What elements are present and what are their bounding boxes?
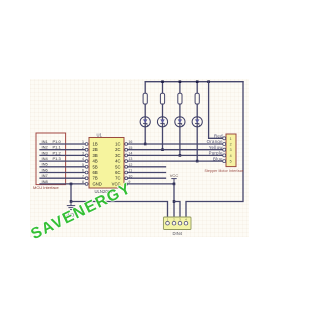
IC U1 left pin 1 (1B) [85,143,88,146]
svg-text:1B: 1B [93,142,98,147]
wire: input net IN7 to IC pin 7 [40,177,85,179]
svg-text:GND: GND [93,181,102,186]
IC U1 left pin 5 (5B) [85,165,88,168]
LED D3 [175,117,185,127]
svg-text:U1: U1 [97,133,103,138]
resistor R1 [143,93,147,104]
svg-text:Purple: Purple [209,151,224,156]
wire: input net IN8 to IC pin 8 [40,183,85,185]
svg-text:IN3: IN3 [42,150,49,155]
svg-text:IN2: IN2 [42,145,49,150]
connector J1 pin 1 [223,137,226,140]
junction on rail at column 4 [196,80,199,83]
wire: input net IN1 to IC pin 1 [40,143,85,145]
wire: input net IN4 to IC pin 4 [40,160,85,162]
LED D1 [140,117,150,127]
IC U1 left pin 3 (3B) [85,154,88,157]
svg-text:4B: 4B [93,159,98,164]
junction: LED D4 to 4C wire [196,160,199,163]
IC U1 right pin 11 (6C) [125,171,128,174]
IC U1 right pin 12 (5C) [125,165,128,168]
wire: GND net down to ground rail [70,184,72,202]
svg-text:7B: 7B [93,176,98,181]
svg-text:Stepper Motor Interface: Stepper Motor Interface [205,169,244,173]
svg-text:3: 3 [82,152,84,156]
LED D2 [157,117,167,127]
svg-text:1C: 1C [115,142,120,147]
junction on rail at column 3 [179,80,182,83]
IC U1 right pin 15 (2C) [125,148,128,151]
svg-text:Red: Red [214,134,223,139]
connector DIN4 pin 1 [166,221,170,225]
svg-text:Blue: Blue [213,156,223,161]
junction: LED D1 to 1C wire [144,143,147,146]
svg-text:1: 1 [82,140,84,144]
svg-text:IN1: IN1 [42,139,49,144]
wire: top supply rail (LED anode net) [145,81,243,83]
wire: 4C output to stepper connector pin 5 [128,160,224,162]
svg-text:3B: 3B [93,153,98,158]
svg-text:VCC: VCC [170,173,179,178]
svg-text:2: 2 [82,146,84,150]
svg-text:DIN4: DIN4 [173,231,183,236]
wire: 3C output to stepper connector pin 4 [128,154,224,156]
resistor R4 [195,93,199,104]
wire: VCC pin 9 to VCC symbol [128,183,174,185]
resistor R3 [178,93,182,104]
wire: input net IN6 to IC pin 6 [40,172,85,174]
ground symbol [67,202,75,210]
svg-text:Yellow: Yellow [209,145,224,150]
junction: LED D3 to 3C wire [179,154,182,157]
IC U1 right pin 14 (3C) [125,154,128,157]
wire: resistor R3 through LED D3 to output row 3 [179,104,181,155]
wire: ground rail to DIN4 pin 1 [71,202,168,222]
wire: 6C stub [128,172,166,174]
power symbol VCC [171,179,176,184]
junction on rail at column 2 [161,80,164,83]
junction: GND net branch [70,183,73,186]
IC U1 right pin 9 (VCC) [125,183,128,186]
annotation box: MCU interface (red outline) [36,133,66,185]
IC U1 left pin 7 (7B) [85,177,88,180]
junction: ground rail [70,200,73,203]
svg-text:7: 7 [82,174,84,178]
svg-text:2: 2 [230,143,232,147]
svg-text:5C: 5C [115,164,120,169]
wire: input net IN3 to IC pin 3 [40,154,85,156]
svg-text:3: 3 [230,148,232,152]
svg-text:7C: 7C [115,176,120,181]
svg-text:4: 4 [82,157,84,161]
junction: LED D2 to 2C wire [161,148,164,151]
svg-text:5: 5 [82,163,84,167]
junction: VCC net at pin 9 wire [173,183,176,186]
svg-text:4: 4 [230,154,232,158]
connector DIN4 pin 2 [172,221,176,225]
wire: DIN4 pin 3 riser [174,202,180,222]
wire: input net IN5 to IC pin 5 [40,166,85,168]
resistor R2 [160,93,164,104]
connector DIN4 body [164,217,192,230]
connector J1 pin 4 [223,154,226,157]
IC U1 right pin 13 (4C) [125,160,128,163]
wire: resistor R1 through LED D1 to output row 1 [144,104,146,144]
svg-text:IN5: IN5 [42,162,49,167]
connector J1 pin 5 [223,160,226,163]
svg-text:6B: 6B [93,170,98,175]
IC U1 left pin 4 (4B) [85,160,88,163]
IC U1 right pin 16 (1C) [125,143,128,146]
wire: rail to resistor R4 [196,82,198,94]
wire: 1C output to stepper connector pin 2 [128,143,224,145]
svg-text:MCU Interface: MCU Interface [33,185,60,190]
svg-text:P1.3: P1.3 [53,156,62,161]
svg-text:IN4: IN4 [42,156,49,161]
svg-text:6: 6 [82,169,84,173]
svg-text:P1.0: P1.0 [53,139,62,144]
wire: resistor R2 through LED D2 to output row 2 [162,104,164,150]
svg-text:4C: 4C [115,159,120,164]
wire: 7C stub [128,177,166,179]
IC U1 left pin 2 (2B) [85,148,88,151]
IC U1 left pin 8 (GND) [85,183,88,186]
IC U1 left pin 6 (6B) [85,171,88,174]
wire: VCC net down to DIN4 pin 2 [173,184,175,221]
wire: input net IN2 to IC pin 2 [40,149,85,151]
svg-text:5: 5 [230,160,232,164]
wire: Red net from rail to connector pin 1 [209,82,224,139]
svg-text:IN6: IN6 [42,167,49,172]
junction on rail at red net [207,80,210,83]
svg-text:2C: 2C [115,147,120,152]
svg-text:IN7: IN7 [42,173,49,178]
svg-text:8: 8 [82,180,84,184]
wire: 2C output to stepper connector pin 3 [128,149,224,151]
op-amp/driver IC U1 ULN2003 body [89,138,124,189]
connector DIN4 pin 3 [178,221,182,225]
svg-text:3C: 3C [115,153,120,158]
IC U1 right pin 10 (7C) [125,177,128,180]
connector J1 pin 3 [223,148,226,151]
junction: VCC net at DIN4 rail [173,200,176,203]
connector J1 pin 2 [223,143,226,146]
wire: resistor R4 through LED D4 to output row 4 [196,104,198,161]
svg-text:1: 1 [230,137,232,141]
wire: rail to resistor R2 [162,82,164,94]
wire: 5C stub [128,166,166,168]
svg-text:2B: 2B [93,147,98,152]
connector J1 stepper motor body [226,134,236,167]
wire: rail to resistor R1 [144,82,146,94]
svg-text:P1.2: P1.2 [53,150,62,155]
wire: rail to resistor R3 [179,82,181,94]
svg-text:5B: 5B [93,164,98,169]
svg-text:Orange: Orange [207,139,223,144]
connector DIN4 pin 4 [184,221,188,225]
svg-text:6C: 6C [115,170,120,175]
svg-text:P1.1: P1.1 [53,145,62,150]
wire: rail right drop to DIN4 pin 4 net [186,82,243,221]
LED D4 [192,117,202,127]
svg-text:IN8: IN8 [42,179,49,184]
